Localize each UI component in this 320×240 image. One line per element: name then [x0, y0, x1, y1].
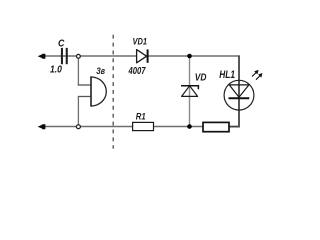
svg-text:R1: R1: [136, 111, 146, 121]
svg-text:C: C: [58, 38, 65, 49]
wire bell lead upper: [78, 84, 91, 86]
zener diode VD: [182, 86, 198, 97]
svg-text:1.0: 1.0: [50, 65, 62, 76]
LED emission arrow 1: [252, 72, 256, 76]
LED HL1 cathode bar: [229, 97, 250, 99]
wire bell branch bottom vertical: [77, 97, 79, 126]
svg-text:VD1: VD1: [133, 36, 148, 47]
LED emission arrow 2: [256, 76, 260, 80]
resistor R1: [133, 122, 154, 130]
LED HL1 circle: [224, 80, 254, 110]
junction dot top (node A): [187, 54, 192, 59]
node bottom terminal (open circle): [76, 125, 80, 129]
wire right vertical with corner to resistor: [229, 55, 239, 126]
arrow left top terminal: [38, 54, 46, 59]
svg-text:4007: 4007: [128, 66, 146, 77]
dashed separator line: [112, 35, 114, 149]
wire zener branch vertical: [189, 56, 191, 127]
arrow left bottom terminal: [38, 124, 46, 129]
bell BA (Зв) body: [91, 77, 106, 106]
wire bottom rail: [43, 126, 239, 128]
diode VD1: [137, 50, 147, 63]
svg-text:HL1: HL1: [219, 69, 235, 81]
capacitor C1 plates: [61, 48, 63, 64]
svg-text:VD: VD: [195, 72, 207, 83]
node top terminal (open circle): [77, 54, 81, 58]
junction dot bottom (node B): [187, 124, 192, 129]
resistor R2 (unlabeled): [203, 122, 229, 131]
svg-text:Зв: Зв: [96, 66, 105, 77]
wire top rail: [43, 55, 239, 57]
wire bell branch top vertical: [77, 58, 79, 86]
LED HL1 triangle: [229, 85, 249, 97]
wire bell lead lower: [78, 96, 91, 98]
